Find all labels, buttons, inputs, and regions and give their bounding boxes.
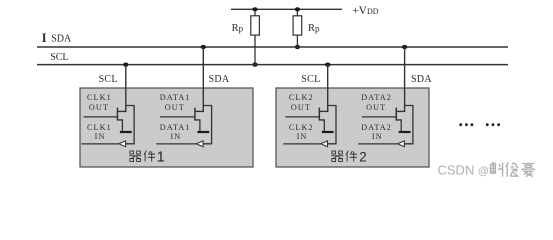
label SCL (bus) bbox=[50, 52, 68, 63]
label SDA (device 1 pin) bbox=[209, 74, 230, 85]
input buffer Q2 DATA1 bbox=[196, 141, 203, 147]
node: R1 to VDD rail bbox=[252, 7, 257, 11]
transistor Q1 CLK1 (open-drain NMOS) bbox=[84, 108, 127, 131]
transistor Q4 DATA2 (open-drain NMOS) bbox=[362, 108, 405, 131]
label I SDA (bus) bbox=[42, 31, 72, 45]
svg-text:DATA1: DATA1 bbox=[160, 123, 191, 132]
input buffer Q3 CLK2 bbox=[321, 141, 328, 147]
svg-text:SDA: SDA bbox=[209, 74, 230, 85]
label 器件2 (device 2 name) bbox=[331, 149, 367, 164]
svg-text:DATA2: DATA2 bbox=[361, 93, 392, 102]
svg-text:IN: IN bbox=[372, 132, 383, 141]
label SCL (device 2 pin) bbox=[301, 74, 320, 85]
svg-text:CSDN: CSDN bbox=[438, 162, 475, 177]
svg-text:Rp: Rp bbox=[308, 23, 320, 34]
pin label DATA1 OUT bbox=[160, 93, 191, 112]
svg-text:CLK1: CLK1 bbox=[87, 123, 112, 132]
svg-text:CLK2: CLK2 bbox=[289, 123, 314, 132]
pin label DATA2 IN bbox=[361, 123, 392, 141]
svg-text:IN: IN bbox=[170, 132, 181, 141]
svg-text:@: @ bbox=[478, 165, 489, 177]
power label +VDD bbox=[352, 5, 379, 17]
wire: Q4 DATA2 IN line bbox=[358, 143, 397, 145]
svg-text:SCL: SCL bbox=[301, 74, 320, 85]
node: R2 to SDA bus bbox=[295, 45, 300, 49]
transistor Q2 DATA1 (open-drain NMOS) bbox=[160, 108, 204, 131]
label Rp (R1) bbox=[232, 23, 244, 34]
resistor R1 (pull-up, SCL) bbox=[251, 9, 260, 64]
label SDA (device 2 pin) bbox=[411, 74, 432, 85]
wire: bus drop to Q4 DATA2 drain bbox=[404, 47, 406, 111]
svg-text:OUT: OUT bbox=[291, 103, 311, 112]
wire: bus drop to Q3 CLK2 drain bbox=[327, 65, 329, 112]
svg-text:DATA2: DATA2 bbox=[361, 123, 392, 132]
svg-text:2: 2 bbox=[359, 149, 367, 164]
svg-text:Rp: Rp bbox=[232, 23, 244, 34]
svg-text:I: I bbox=[42, 31, 47, 45]
ground (Q4 DATA2 source) bbox=[399, 131, 411, 133]
node: DATA1 drop on SDA bbox=[201, 45, 206, 49]
wire: Q2 DATA1 IN line bbox=[156, 143, 196, 145]
svg-text:IN: IN bbox=[95, 132, 106, 141]
wire: bus drop to Q1 CLK1 drain bbox=[125, 65, 127, 112]
svg-text:OUT: OUT bbox=[89, 103, 109, 112]
svg-text:IN: IN bbox=[297, 132, 308, 141]
wire: +VDD rail bbox=[231, 8, 342, 10]
pin label CLK2 IN bbox=[289, 123, 314, 141]
node: R1 to SCL bus bbox=[252, 63, 257, 67]
transistor Q3 CLK2 (open-drain NMOS) bbox=[285, 108, 328, 131]
wire: Q1 CLK1 IN line bbox=[81, 143, 119, 145]
pin label CLK1 IN bbox=[87, 123, 112, 141]
wire: Q2 DATA1 input-buffer branch bbox=[203, 106, 211, 144]
wire: Q1 CLK1 input-buffer branch bbox=[126, 106, 134, 144]
wire: SDA bus line bbox=[37, 46, 508, 48]
pin label DATA1 IN bbox=[160, 123, 191, 141]
pin label CLK1 OUT bbox=[87, 93, 112, 112]
node: CLK2 drop on SCL bbox=[325, 63, 330, 67]
ellipsis dots (more devices) bbox=[459, 123, 500, 126]
wire: Q3 CLK2 input-buffer branch bbox=[328, 106, 336, 144]
node: DATA2 drop on SDA bbox=[402, 45, 407, 49]
svg-text:DATA1: DATA1 bbox=[160, 93, 191, 102]
input buffer Q1 CLK1 bbox=[119, 141, 126, 147]
svg-text:SCL: SCL bbox=[99, 74, 118, 85]
node: CLK1 drop on SCL bbox=[123, 63, 128, 67]
svg-text:CLK1: CLK1 bbox=[87, 93, 112, 102]
label Rp (R2) bbox=[308, 23, 320, 34]
wire: bus drop to Q2 DATA1 drain bbox=[202, 47, 204, 111]
device 2 box bbox=[276, 88, 429, 167]
svg-text:SDA: SDA bbox=[411, 74, 432, 85]
svg-text:OUT: OUT bbox=[165, 103, 185, 112]
svg-text:+VDD: +VDD bbox=[352, 5, 379, 17]
wire: Q3 CLK2 IN line bbox=[283, 143, 321, 145]
input buffer Q4 DATA2 bbox=[398, 141, 405, 147]
svg-text:SDA: SDA bbox=[51, 34, 72, 45]
watermark CSDN @斛俊豪 bbox=[438, 162, 535, 177]
svg-text:1: 1 bbox=[157, 148, 165, 165]
wire: Q4 DATA2 input-buffer branch bbox=[405, 106, 413, 144]
wire: SCL bus line bbox=[37, 64, 508, 66]
pin label DATA2 OUT bbox=[361, 93, 392, 112]
device 1 box bbox=[80, 88, 253, 167]
resistor R2 (pull-up, SDA) bbox=[293, 9, 302, 47]
svg-text:CLK2: CLK2 bbox=[289, 93, 314, 102]
ground (Q3 CLK2 source) bbox=[322, 131, 334, 133]
ground (Q1 CLK1 source) bbox=[120, 131, 132, 133]
svg-text:OUT: OUT bbox=[366, 103, 386, 112]
pin label CLK2 OUT bbox=[289, 93, 314, 112]
svg-text:SCL: SCL bbox=[50, 52, 68, 63]
ground (Q2 DATA1 source) bbox=[197, 131, 209, 133]
label SCL (device 1 pin) bbox=[99, 74, 118, 85]
node: R2 to VDD rail bbox=[295, 7, 300, 11]
label 器件1 (device 1 name) bbox=[129, 148, 165, 165]
